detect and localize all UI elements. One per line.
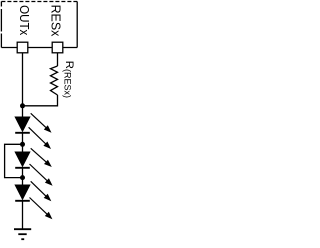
LED D1 triangle <box>15 117 30 131</box>
svg-text:OUTx: OUTx <box>17 5 32 36</box>
IC outline left edge (dashed) <box>0 2 2 48</box>
LED D3 emission arrow 2 <box>30 198 53 220</box>
wire RESx pin down <box>57 48 59 67</box>
LED D2 triangle <box>15 152 30 166</box>
node junction dot 2 <box>20 142 25 147</box>
wire D1 to D2 <box>22 133 24 153</box>
LED D1 emission arrow 2 <box>29 127 51 149</box>
ground symbol <box>14 229 31 239</box>
svg-text:RESx: RESx <box>49 5 64 37</box>
IC outline bottom edge <box>1 47 77 49</box>
svg-text:R(RESx): R(RESx) <box>63 61 75 98</box>
LED D3 triangle <box>15 185 30 199</box>
wire D2 to D3 <box>22 168 24 186</box>
pin box OUTx <box>17 42 28 53</box>
LED D3 cathode bar <box>15 200 30 202</box>
LED D2 cathode bar <box>15 167 30 169</box>
LED D3 emission arrow 1 <box>31 181 52 201</box>
IC outline right edge <box>76 2 78 48</box>
node junction dot 3 <box>20 175 25 180</box>
node junction dot 1 <box>20 103 25 108</box>
LED D1 cathode bar <box>15 132 30 134</box>
short/bypass loop around D2 <box>5 144 23 177</box>
wire D3 to ground <box>22 201 24 229</box>
wire OUTx pin down <box>22 48 24 118</box>
IC outline top edge (dashed) <box>1 1 77 3</box>
pin box RESx <box>52 42 63 53</box>
LED D2 emission arrow 2 <box>30 164 53 186</box>
resistor R(RESx) zigzag <box>51 66 58 95</box>
resistor bottom lead and wire to OUTx net <box>23 95 58 106</box>
LED D1 emission arrow 1 <box>31 113 52 132</box>
LED D2 emission arrow 1 <box>31 148 52 167</box>
